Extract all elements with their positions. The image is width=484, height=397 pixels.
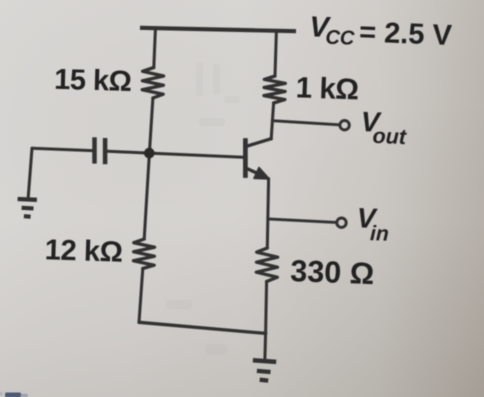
wire left ground drop <box>28 148 32 197</box>
capacitor C1 right plate <box>103 138 108 164</box>
ground left bar1 <box>18 197 37 202</box>
faint page bleed-through smudges (decorative) <box>166 62 240 355</box>
wire 12k lower lead <box>139 269 143 323</box>
terminal Vin circle <box>337 218 346 227</box>
wire capacitor right lead <box>108 151 150 153</box>
svg-text:= 2.5 V: = 2.5 V <box>359 16 454 52</box>
capacitor C1 left plate <box>92 137 97 163</box>
svg-text:12 kΩ: 12 kΩ <box>44 234 123 268</box>
label VCC = 2.5 V <box>309 11 454 53</box>
ground right bar3 <box>260 378 269 383</box>
wire left vertical lower <box>149 98 153 153</box>
wire top rail VCC <box>140 28 296 31</box>
svg-text:in: in <box>370 222 389 246</box>
ground left bar3 <box>24 214 31 219</box>
resistor R2 12 kOhm <box>133 239 154 269</box>
label Vin <box>356 202 390 245</box>
wire collector vertical <box>271 103 273 139</box>
transistor Q1 emitter lead <box>247 169 266 178</box>
node A junction dot <box>144 148 155 159</box>
svg-text:330 Ω: 330 Ω <box>290 254 375 291</box>
resistor R1 15 kOhm <box>142 68 163 99</box>
transistor Q1 collector lead <box>247 139 271 146</box>
ground right bar2 <box>257 371 271 372</box>
wire to right ground <box>263 333 267 358</box>
wire right vertical from VCC <box>275 31 276 76</box>
svg-text:1 kΩ: 1 kΩ <box>295 71 359 106</box>
resistor R4 330 Ohm <box>256 248 277 282</box>
wire left vertical upper <box>154 30 156 68</box>
wire capacitor left lead <box>32 148 92 150</box>
svg-text:15 kΩ: 15 kΩ <box>54 64 132 98</box>
resistor R3 1 kOhm <box>264 76 285 103</box>
wire emitter vertical lower <box>266 282 267 334</box>
ground right bar1 <box>253 360 276 362</box>
terminal Vout circle <box>340 121 349 130</box>
label Vout <box>360 106 408 149</box>
wire emitter vertical upper <box>267 179 268 248</box>
transistor Q1 base bar <box>243 138 248 178</box>
wire 12k upper lead <box>144 153 149 239</box>
wire Vin tap <box>268 219 337 223</box>
blue ink smudge bottom-left <box>0 392 28 397</box>
ground left bar2 <box>22 206 34 211</box>
wire bottom rail <box>139 322 266 333</box>
wire Vout tap <box>272 121 339 125</box>
transistor Q1 emitter arrowhead <box>254 168 269 179</box>
svg-text:out: out <box>372 124 407 149</box>
svg-text:CC: CC <box>325 27 355 50</box>
wire base from node to transistor <box>149 153 243 157</box>
